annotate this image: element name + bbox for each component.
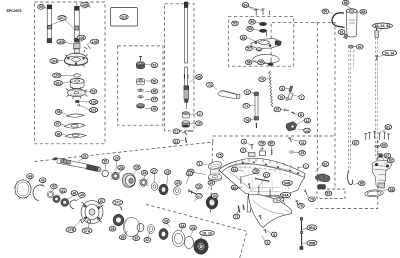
callout 79 bbox=[309, 197, 316, 202]
callout 63, 64, 65 bbox=[373, 23, 393, 28]
callout 110 bbox=[120, 15, 128, 20]
svg-text:89: 89 bbox=[361, 10, 365, 14]
svg-text:74: 74 bbox=[245, 118, 249, 122]
svg-text:78: 78 bbox=[260, 142, 264, 146]
callout 36 bbox=[119, 235, 126, 240]
impeller 99 bbox=[66, 87, 88, 99]
svg-text:84B: 84B bbox=[284, 181, 291, 185]
svg-text:17: 17 bbox=[197, 194, 201, 198]
svg-text:56: 56 bbox=[250, 20, 254, 24]
callout 106 bbox=[77, 35, 85, 40]
callout 40 bbox=[79, 193, 86, 198]
bearing 22 (dark) bbox=[159, 184, 168, 195]
deck studs and details bbox=[228, 159, 300, 177]
solid box around 110 bbox=[111, 8, 138, 27]
bearing 34b (dark) bbox=[206, 196, 218, 209]
propeller shaft 31 bbox=[53, 158, 101, 172]
svg-text:44: 44 bbox=[28, 174, 32, 178]
callout 34 bbox=[179, 223, 186, 228]
callout 17 bbox=[196, 193, 203, 198]
callout 91 bbox=[338, 30, 345, 35]
head gasket 58 bbox=[253, 54, 279, 63]
svg-text:98: 98 bbox=[57, 110, 61, 114]
impeller key 100 bbox=[76, 100, 79, 103]
seal 32b (dark) bbox=[159, 228, 168, 239]
ratchet 29 bbox=[111, 172, 121, 180]
svg-text:7: 7 bbox=[199, 162, 201, 166]
main driveshaft bbox=[184, 2, 189, 109]
svg-text:48: 48 bbox=[152, 90, 156, 94]
gearcase housing deck bbox=[219, 158, 305, 177]
callout 53 bbox=[232, 21, 239, 26]
seal 59 bbox=[268, 63, 274, 66]
screw 79 part bbox=[304, 190, 307, 195]
callout 13 bbox=[274, 107, 281, 112]
bearing housing 37 bbox=[81, 201, 104, 224]
callout 14 bbox=[304, 128, 311, 133]
svg-text:94: 94 bbox=[233, 168, 237, 172]
callout 67 bbox=[384, 153, 391, 158]
callout 16 bbox=[196, 184, 203, 189]
plate 3 bbox=[249, 153, 256, 157]
ring 24 part bbox=[184, 237, 193, 249]
snap ring 40 bbox=[70, 200, 77, 209]
svg-text:109: 109 bbox=[92, 40, 98, 44]
pin 101 bbox=[78, 104, 80, 106]
svg-text:26: 26 bbox=[143, 171, 147, 175]
svg-text:73: 73 bbox=[208, 83, 212, 87]
callout 59 bbox=[258, 60, 265, 65]
svg-text:84A: 84A bbox=[282, 193, 289, 197]
callout 28 bbox=[118, 165, 125, 170]
dashed box B (driveshaft) bbox=[165, 4, 195, 131]
svg-text:68: 68 bbox=[390, 188, 394, 192]
svg-text:33: 33 bbox=[134, 236, 138, 240]
svg-text:38: 38 bbox=[111, 227, 115, 231]
shift rod connector (63,64,65) bbox=[375, 28, 378, 38]
washer 47 bbox=[138, 96, 144, 98]
O-ring 42 bbox=[47, 191, 54, 198]
svg-text:59: 59 bbox=[259, 61, 263, 65]
svg-text:88: 88 bbox=[344, 1, 348, 5]
detent housing 7 bbox=[288, 93, 294, 100]
anode bolt 83 part bbox=[318, 185, 326, 190]
svg-text:51: 51 bbox=[152, 63, 156, 67]
stud 4 bbox=[251, 145, 254, 150]
callout 8 bbox=[298, 112, 303, 117]
svg-text:77: 77 bbox=[235, 215, 239, 219]
svg-text:85B: 85B bbox=[309, 241, 316, 245]
gear 26 part bbox=[139, 179, 148, 186]
washer 15 part bbox=[290, 151, 294, 153]
callout 90 bbox=[322, 9, 329, 14]
svg-text:14: 14 bbox=[305, 129, 309, 133]
svg-text:45: 45 bbox=[197, 75, 201, 79]
callout 77 bbox=[233, 214, 240, 219]
svg-text:15: 15 bbox=[300, 151, 304, 155]
callout 84 bbox=[231, 185, 238, 190]
callout 27 bbox=[151, 169, 158, 174]
callout 87 bbox=[352, 140, 359, 145]
seal 45b bbox=[61, 198, 69, 206]
svg-text:79: 79 bbox=[310, 197, 314, 201]
callout 7 bbox=[197, 161, 202, 166]
thrust washer 36 bbox=[123, 217, 139, 236]
callout 62 bbox=[322, 162, 329, 167]
svg-text:13: 13 bbox=[275, 108, 279, 112]
callout 76 bbox=[298, 203, 305, 208]
callout 26 bbox=[141, 170, 148, 175]
callout 22 bbox=[186, 171, 193, 176]
callout 3 bbox=[240, 148, 245, 153]
callout 17 bbox=[263, 173, 270, 178]
callout 85A bbox=[307, 225, 317, 230]
clutch dog 18 bbox=[122, 173, 135, 187]
svg-text:86: 86 bbox=[360, 182, 364, 186]
svg-text:11: 11 bbox=[301, 141, 305, 145]
svg-text:8: 8 bbox=[300, 113, 302, 117]
water pump cup / tube upper (item 88-92 group) bbox=[347, 9, 358, 37]
washer 37A part bbox=[87, 220, 90, 223]
callout 95 bbox=[38, 4, 45, 9]
svg-text:90: 90 bbox=[323, 10, 327, 14]
callout 31 bbox=[82, 154, 89, 159]
water tube (phantom) bbox=[349, 50, 354, 170]
svg-text:16: 16 bbox=[197, 185, 201, 189]
ring 33 bbox=[137, 223, 144, 231]
bolt 21 part bbox=[188, 130, 193, 132]
callout 38 bbox=[109, 226, 116, 231]
callout 73 bbox=[207, 82, 214, 87]
callout 29 bbox=[113, 156, 120, 161]
callout 9 bbox=[280, 86, 285, 91]
callout 18, 19 bbox=[200, 230, 214, 235]
callout 45 bbox=[71, 191, 78, 196]
callout 72 bbox=[244, 90, 251, 95]
callout 78 bbox=[259, 141, 266, 146]
callout 16 bbox=[253, 169, 260, 174]
svg-text:55: 55 bbox=[248, 27, 252, 31]
svg-text:5: 5 bbox=[267, 241, 269, 245]
pin 8 bbox=[292, 112, 295, 114]
callout 18 bbox=[134, 165, 141, 170]
callout 24 bbox=[173, 139, 180, 144]
grommet 55 bbox=[259, 29, 266, 32]
detent spring 70 bbox=[269, 72, 273, 107]
callout 54 bbox=[240, 35, 247, 40]
svg-text:35: 35 bbox=[164, 219, 168, 223]
svg-text:17: 17 bbox=[265, 173, 269, 177]
svg-text:62: 62 bbox=[324, 162, 328, 166]
svg-text:40: 40 bbox=[80, 193, 84, 197]
svg-text:45: 45 bbox=[72, 191, 76, 195]
callout 83 bbox=[325, 191, 332, 196]
svg-text:37: 37 bbox=[100, 199, 104, 203]
callout 84B bbox=[282, 180, 292, 185]
svg-text:60: 60 bbox=[244, 3, 248, 7]
callout 105 bbox=[57, 39, 65, 44]
callout 6 bbox=[272, 232, 277, 237]
callout 89 bbox=[360, 9, 367, 14]
pin 24 bbox=[185, 138, 186, 144]
callout 7 bbox=[299, 95, 304, 100]
svg-text:10: 10 bbox=[279, 95, 283, 99]
svg-text:37B: 37B bbox=[68, 228, 75, 232]
callout 55 bbox=[247, 27, 254, 32]
shift module housing 82 bbox=[372, 157, 392, 189]
svg-text:58: 58 bbox=[247, 61, 251, 65]
callout 47 bbox=[151, 97, 158, 102]
svg-text:3: 3 bbox=[242, 149, 244, 153]
callout 94 bbox=[231, 167, 238, 172]
callout 99 bbox=[90, 89, 97, 94]
svg-text:7: 7 bbox=[301, 95, 303, 99]
svg-text:54: 54 bbox=[241, 36, 245, 40]
svg-text:107: 107 bbox=[59, 16, 65, 20]
svg-text:16: 16 bbox=[254, 170, 258, 174]
callout 2 bbox=[197, 111, 202, 116]
callout 97 bbox=[54, 121, 61, 126]
dashed box A (water pump group) bbox=[35, 2, 106, 144]
callout 80 bbox=[268, 141, 275, 146]
block 67 bbox=[379, 154, 383, 158]
svg-text:22: 22 bbox=[188, 172, 192, 176]
water pump base plate 104 bbox=[64, 50, 88, 67]
dashed box C (seal housing group) bbox=[118, 46, 163, 125]
svg-text:31: 31 bbox=[83, 155, 87, 159]
screw 37B part bbox=[80, 219, 83, 223]
svg-text:30: 30 bbox=[103, 160, 107, 164]
wear plate 97 bbox=[64, 123, 85, 128]
studs under housing bbox=[241, 176, 270, 197]
callout 104 bbox=[50, 59, 58, 64]
svg-text:108: 108 bbox=[82, 3, 88, 7]
svg-text:EPC4576: EPC4576 bbox=[7, 9, 22, 13]
callout 21 bbox=[173, 129, 180, 134]
fitting 91 bbox=[344, 34, 349, 39]
svg-text:92: 92 bbox=[358, 45, 362, 49]
shift lever 12 bbox=[286, 122, 297, 132]
callout 35 bbox=[163, 219, 170, 224]
svg-text:85A: 85A bbox=[309, 226, 316, 230]
callout 86 bbox=[359, 181, 366, 186]
callout 75 bbox=[217, 153, 224, 158]
callout 5 bbox=[265, 240, 270, 245]
svg-text:12: 12 bbox=[305, 119, 309, 123]
screw below head bbox=[270, 61, 272, 65]
callout 44 bbox=[27, 174, 34, 179]
svg-text:87: 87 bbox=[354, 141, 358, 145]
callout 103 bbox=[53, 73, 61, 78]
dashed box I (forward gear group, rotated) bbox=[146, 204, 247, 258]
callout 84A bbox=[281, 192, 291, 197]
svg-text:66: 66 bbox=[382, 144, 386, 148]
svg-text:28: 28 bbox=[119, 166, 123, 170]
dashed box G (shift detent group) bbox=[271, 22, 335, 189]
callout 30 bbox=[102, 159, 109, 164]
shift cradle 73 bbox=[218, 91, 240, 99]
svg-text:37A: 37A bbox=[84, 229, 91, 233]
svg-text:1: 1 bbox=[305, 164, 307, 168]
bolt above seal housing bbox=[139, 57, 142, 62]
svg-text:27: 27 bbox=[152, 169, 156, 173]
seal 41 bbox=[53, 195, 60, 202]
svg-text:6: 6 bbox=[273, 233, 275, 237]
housing body / skirt bbox=[222, 171, 305, 213]
callout 11 bbox=[299, 140, 306, 145]
svg-text:4: 4 bbox=[243, 140, 245, 144]
shift rod (phantom) bbox=[375, 38, 377, 159]
svg-text:41: 41 bbox=[61, 189, 65, 193]
svg-text:105: 105 bbox=[58, 40, 64, 44]
callout 4 bbox=[241, 139, 246, 144]
grommet 92 bbox=[348, 45, 353, 48]
skeg screws bbox=[259, 215, 266, 233]
callout 34 bbox=[212, 193, 219, 198]
screw 13 bbox=[284, 109, 289, 111]
callout 109 bbox=[91, 39, 99, 44]
callout 102 bbox=[54, 81, 62, 86]
svg-text:25: 25 bbox=[209, 181, 213, 185]
svg-text:100: 100 bbox=[91, 100, 97, 104]
small bolt 21 bbox=[184, 131, 187, 135]
callout 32 bbox=[144, 238, 151, 243]
skeg lower housing bbox=[249, 194, 292, 227]
callout 33 bbox=[133, 236, 140, 241]
callout 85B bbox=[307, 240, 317, 245]
dashed box F (gearcase head group) bbox=[228, 17, 293, 66]
callout 37A bbox=[82, 228, 92, 233]
ball 10 bbox=[286, 98, 289, 101]
callout 41 bbox=[60, 188, 67, 193]
svg-text:80: 80 bbox=[269, 142, 273, 146]
svg-text:53: 53 bbox=[233, 22, 237, 26]
svg-text:10: 10 bbox=[197, 122, 201, 126]
svg-text:71: 71 bbox=[244, 104, 248, 108]
washer 48 bbox=[137, 89, 143, 92]
callout 70 bbox=[259, 77, 266, 82]
svg-text:84: 84 bbox=[233, 186, 237, 190]
ring 32 bbox=[147, 225, 154, 234]
bracket 78 bbox=[260, 149, 266, 156]
svg-text:2: 2 bbox=[199, 112, 201, 116]
callout 46 bbox=[151, 106, 158, 111]
driveshaft (long, item 107 group) bbox=[75, 3, 91, 43]
screw cluster top right bbox=[365, 132, 390, 141]
svg-text:83: 83 bbox=[327, 192, 331, 196]
svg-text:18: 18 bbox=[135, 166, 139, 170]
callout 107 bbox=[58, 16, 66, 21]
O-ring 50 bbox=[136, 78, 144, 85]
coupler stack below shafts bbox=[73, 44, 90, 54]
svg-text:57: 57 bbox=[247, 47, 251, 51]
gearcase head 54 bbox=[251, 39, 281, 49]
pin 37C part bbox=[121, 207, 123, 211]
callout 25 bbox=[208, 180, 215, 185]
svg-text:34: 34 bbox=[213, 194, 217, 198]
pin 80 bbox=[271, 150, 273, 156]
callout 10 bbox=[278, 95, 285, 100]
callout 82 bbox=[388, 158, 395, 163]
svg-text:99: 99 bbox=[92, 89, 96, 93]
screws near 60 bbox=[255, 9, 270, 16]
svg-text:110: 110 bbox=[121, 15, 127, 19]
callout 60 bbox=[242, 3, 249, 8]
anode 62 bbox=[315, 174, 330, 182]
gasket 98 bbox=[67, 114, 84, 117]
driveshaft (short, item 95 group) bbox=[47, 5, 51, 43]
gasket 96 bbox=[65, 134, 86, 138]
svg-text:18, 19: 18, 19 bbox=[202, 231, 212, 235]
svg-text:96: 96 bbox=[56, 132, 60, 136]
svg-text:61: 61 bbox=[386, 125, 390, 129]
callout 25 bbox=[164, 170, 171, 175]
forward gear 18,19 (dark) bbox=[194, 239, 208, 255]
svg-text:25: 25 bbox=[166, 170, 170, 174]
grommet 56 bbox=[259, 22, 266, 25]
callout 24 bbox=[190, 225, 197, 230]
svg-text:104: 104 bbox=[51, 59, 57, 63]
pinion nut 10 bbox=[182, 121, 190, 127]
pin 77 part bbox=[238, 206, 240, 213]
callout 92 bbox=[357, 44, 364, 49]
shift rod 85 bbox=[300, 218, 303, 250]
callout 93, 94 bbox=[382, 50, 396, 55]
callout 48 bbox=[151, 89, 158, 94]
callout 1 bbox=[303, 164, 308, 169]
screw near 16 bbox=[248, 184, 251, 189]
svg-text:76: 76 bbox=[299, 204, 303, 208]
washer 27 part bbox=[151, 183, 157, 191]
svg-text:21: 21 bbox=[174, 130, 178, 134]
pin 77b bbox=[243, 205, 244, 211]
svg-text:29: 29 bbox=[115, 156, 119, 160]
callout 71 bbox=[243, 103, 250, 108]
ring gear 44 bbox=[14, 179, 33, 200]
callout 42 bbox=[51, 184, 58, 189]
pin on head bbox=[266, 31, 268, 37]
callout 74 bbox=[187, 169, 194, 174]
svg-text:37C: 37C bbox=[114, 201, 121, 205]
svg-text:101: 101 bbox=[91, 108, 97, 112]
callout 88 bbox=[342, 0, 349, 5]
svg-text:42: 42 bbox=[52, 185, 56, 189]
callout 68 bbox=[388, 187, 395, 192]
water tube lower hook 86 bbox=[348, 170, 353, 185]
callout 51 bbox=[151, 63, 158, 68]
svg-text:103: 103 bbox=[54, 74, 60, 78]
callout 74 bbox=[244, 118, 251, 123]
washer 34 part bbox=[172, 231, 185, 247]
dashed box H (trim tab group) bbox=[317, 189, 345, 199]
callout 23 bbox=[175, 180, 182, 185]
screw 11 part bbox=[288, 137, 291, 142]
callout 43 bbox=[39, 178, 46, 183]
svg-text:50: 50 bbox=[152, 79, 156, 83]
seal 57 bbox=[256, 48, 261, 52]
callout 50 bbox=[151, 79, 158, 84]
svg-text:95: 95 bbox=[39, 5, 43, 9]
svg-text:32: 32 bbox=[145, 238, 149, 242]
bolt 76 part bbox=[295, 201, 298, 206]
svg-text:97: 97 bbox=[56, 122, 60, 126]
callout 37C bbox=[113, 200, 123, 205]
svg-text:70: 70 bbox=[260, 77, 264, 81]
callout 45 bbox=[196, 75, 203, 80]
washer 23 bbox=[174, 187, 181, 195]
svg-text:24: 24 bbox=[174, 140, 178, 144]
thrust bearing 38 bbox=[113, 214, 124, 226]
